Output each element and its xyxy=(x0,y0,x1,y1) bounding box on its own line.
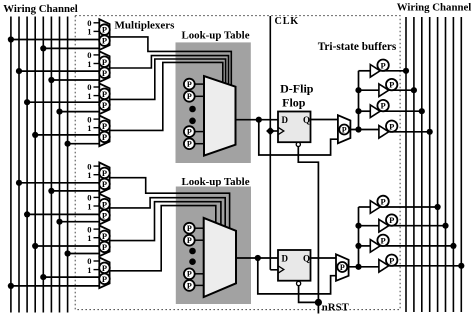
svg-text:D: D xyxy=(282,253,289,263)
svg-text:P: P xyxy=(187,127,192,136)
svg-text:1: 1 xyxy=(87,123,91,133)
svg-text:P: P xyxy=(102,25,107,35)
svg-text:P: P xyxy=(380,196,385,206)
svg-text:nRST: nRST xyxy=(322,302,350,314)
svg-text:P: P xyxy=(102,168,107,178)
svg-text:P: P xyxy=(187,224,192,233)
svg-text:Tri-state buffers: Tri-state buffers xyxy=(318,41,397,53)
svg-text:CLK: CLK xyxy=(275,16,299,27)
svg-text:P: P xyxy=(102,274,107,284)
svg-text:P: P xyxy=(102,100,107,110)
svg-text:P: P xyxy=(187,92,192,101)
svg-text:P: P xyxy=(102,210,107,220)
svg-text:Look-up Table: Look-up Table xyxy=(181,30,249,42)
svg-text:P: P xyxy=(380,235,385,245)
svg-text:P: P xyxy=(102,242,107,252)
svg-text:P: P xyxy=(102,231,107,241)
svg-text:1: 1 xyxy=(87,59,91,69)
svg-text:P: P xyxy=(380,101,385,111)
svg-text:1: 1 xyxy=(87,201,91,211)
svg-text:P: P xyxy=(342,125,347,134)
svg-text:P: P xyxy=(102,132,107,142)
svg-text:Wiring Channel: Wiring Channel xyxy=(3,3,78,15)
svg-text:P: P xyxy=(187,270,192,279)
svg-text:P: P xyxy=(187,281,192,290)
svg-text:P: P xyxy=(102,199,107,209)
svg-text:P: P xyxy=(389,121,394,131)
svg-text:P: P xyxy=(102,68,107,78)
svg-text:Wiring Channel: Wiring Channel xyxy=(397,2,472,14)
svg-text:Q: Q xyxy=(303,253,310,263)
svg-text:P: P xyxy=(340,263,345,272)
svg-text:1: 1 xyxy=(87,91,91,101)
svg-text:P: P xyxy=(102,57,107,67)
svg-text:1: 1 xyxy=(87,233,91,243)
svg-text:P: P xyxy=(102,179,107,189)
svg-text:P: P xyxy=(389,255,394,265)
svg-text:D: D xyxy=(282,115,289,125)
svg-text:P: P xyxy=(102,263,107,273)
svg-text:P: P xyxy=(102,89,107,99)
svg-text:P: P xyxy=(187,80,192,89)
svg-text:P: P xyxy=(389,215,394,225)
svg-text:P: P xyxy=(187,140,192,149)
svg-text:1: 1 xyxy=(87,27,91,37)
svg-text:P: P xyxy=(187,236,192,245)
svg-text:P: P xyxy=(380,60,385,70)
svg-text:D-Flip: D-Flip xyxy=(280,82,314,96)
svg-text:1: 1 xyxy=(87,170,91,180)
svg-text:P: P xyxy=(102,121,107,131)
svg-text:Q: Q xyxy=(303,115,310,125)
svg-text:Look-up Table: Look-up Table xyxy=(181,176,249,188)
svg-text:Flop: Flop xyxy=(282,96,306,110)
svg-text:1: 1 xyxy=(87,265,91,275)
svg-text:P: P xyxy=(389,80,394,90)
svg-text:Multiplexers: Multiplexers xyxy=(115,20,176,32)
svg-text:P: P xyxy=(102,36,107,46)
